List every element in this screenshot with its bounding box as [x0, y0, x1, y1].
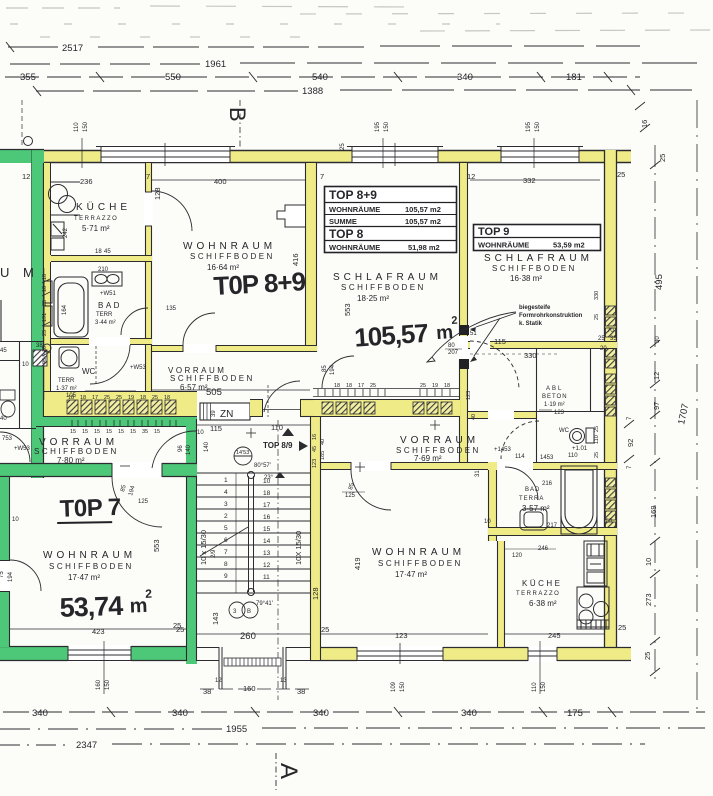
- svg-text:WOHNRAUM: WOHNRAUM: [183, 241, 276, 252]
- stairwell left wall green: [186, 419, 197, 664]
- TOP7 window label 160/150: [96, 641, 111, 694]
- room label BAD: [95, 301, 122, 326]
- svg-text:11: 11: [263, 574, 270, 581]
- svg-text:110: 110: [532, 682, 538, 692]
- yellow stub right of ZN: [250, 399, 263, 417]
- svg-text:SCHIFFBODEN: SCHIFFBODEN: [492, 264, 577, 273]
- svg-text:25: 25: [152, 395, 158, 401]
- annotation biegesteife: [427, 305, 583, 362]
- small triangle 23: [264, 472, 285, 481]
- top-left vertical line into plan: [21, 100, 23, 148]
- svg-text:181: 181: [566, 72, 582, 83]
- svg-text:140: 140: [186, 444, 192, 455]
- table TOP8+9: [325, 187, 457, 253]
- svg-text:20: 20: [600, 346, 607, 352]
- top dimension line 355 550 540 340 181: [5, 72, 640, 82]
- svg-text:TERRA: TERRA: [519, 496, 544, 502]
- svg-text:236: 236: [80, 177, 93, 186]
- kueche lower counter column: [577, 541, 609, 629]
- svg-text:207: 207: [448, 350, 459, 356]
- svg-text:15: 15: [263, 526, 271, 533]
- dim line under top wall: [152, 179, 305, 181]
- svg-text:195: 195: [526, 121, 532, 132]
- svg-text:TOP 9: TOP 9: [478, 226, 509, 238]
- svg-text:105,57: 105,57: [353, 318, 429, 353]
- wall wohnraum/speis vertical right apt: [488, 462, 497, 541]
- svg-text:SCHIFFBODEN: SCHIFFBODEN: [341, 283, 426, 292]
- svg-text:TERRAZZO: TERRAZZO: [74, 216, 118, 222]
- svg-text:7·80 m²: 7·80 m²: [57, 456, 85, 465]
- entry door TOP8/9 opening: [263, 381, 300, 417]
- wall hall top y411: [468, 410, 536, 420]
- svg-text:SCHIFFBODEN: SCHIFFBODEN: [34, 447, 119, 456]
- svg-text:15: 15: [82, 429, 88, 435]
- section marker A: [275, 753, 302, 790]
- svg-text:WOHNRÄUME: WOHNRÄUME: [329, 205, 380, 214]
- chain left wall inner: [42, 268, 50, 400]
- wall wohnraum/schlafraum8 vertical: [305, 163, 317, 352]
- svg-text:185: 185: [320, 451, 326, 460]
- top dimension line 2517: [6, 42, 640, 52]
- top outer wall yellow band: [35, 150, 631, 163]
- svg-text:550: 550: [165, 72, 181, 83]
- svg-text:18: 18: [80, 395, 86, 401]
- svg-text:BAD: BAD: [98, 301, 122, 310]
- svg-text:TERRAZZO: TERRAZZO: [516, 591, 560, 597]
- structural column 1: [459, 325, 469, 335]
- window in TOP7 bottom wall: [64, 645, 135, 662]
- chain stair right wall: [312, 434, 326, 468]
- room label WOHNRAUM top7: [43, 550, 136, 582]
- svg-text:7: 7: [320, 172, 324, 181]
- svg-text:10X 15/30: 10X 15/30: [294, 531, 303, 565]
- svg-text:12: 12: [652, 372, 661, 380]
- svg-text:160: 160: [243, 684, 256, 693]
- svg-text:216: 216: [542, 481, 553, 487]
- svg-text:KÜCHE: KÜCHE: [76, 201, 131, 213]
- svg-text:38: 38: [203, 687, 211, 696]
- right wall hatch cells lower: [606, 478, 616, 531]
- svg-text:16: 16: [640, 120, 649, 128]
- bottom wall TOP7 green: [0, 646, 197, 661]
- svg-text:13: 13: [263, 550, 271, 557]
- svg-text:53,59 m2: 53,59 m2: [553, 241, 585, 250]
- wall wohnraum/vorraum horizontal upper apt: [152, 344, 317, 353]
- svg-text:53,74: 53,74: [59, 591, 124, 623]
- svg-text:18: 18: [334, 383, 340, 389]
- kitchen upper-left counter/sink: [43, 222, 64, 352]
- svg-text:15: 15: [94, 429, 100, 435]
- svg-text:9: 9: [224, 573, 228, 580]
- svg-text:51,98 m2: 51,98 m2: [408, 243, 440, 252]
- bottom dim line 340 series: [3, 707, 705, 717]
- svg-text:1961: 1961: [205, 59, 226, 70]
- svg-text:BETON: BETON: [542, 394, 568, 400]
- chain green strip bottom numbers: [70, 429, 160, 435]
- svg-text:120: 120: [512, 553, 523, 559]
- svg-text:25: 25: [618, 623, 626, 632]
- svg-text:18·25 m²: 18·25 m²: [357, 294, 389, 303]
- stair treads: [197, 473, 310, 593]
- svg-text:1453: 1453: [540, 455, 554, 461]
- svg-text:WOHNRAUM: WOHNRAUM: [43, 550, 136, 561]
- stair stringer: [248, 472, 255, 596]
- svg-text:75: 75: [0, 571, 5, 578]
- right outer wall yellow band: [604, 150, 617, 661]
- left outer wall green band: [0, 150, 44, 479]
- window W3 in top wall: [497, 145, 583, 163]
- svg-text:k. Statik: k. Statik: [519, 321, 543, 327]
- svg-text:39: 39: [211, 410, 217, 417]
- svg-text:125: 125: [345, 493, 356, 499]
- svg-text:340: 340: [172, 708, 188, 719]
- chain vorraum 769 top ticks numbers: [334, 383, 450, 389]
- wc right wall stub: [145, 345, 152, 391]
- svg-text:191: 191: [42, 313, 48, 322]
- svg-text:25: 25: [104, 395, 110, 401]
- svg-text:ZN: ZN: [220, 409, 233, 420]
- structural column 2: [459, 359, 469, 369]
- svg-text:SCHLAFRAUM: SCHLAFRAUM: [484, 253, 593, 264]
- svg-text:5·71 m²: 5·71 m²: [82, 224, 110, 233]
- svg-text:5: 5: [224, 525, 228, 532]
- svg-text:25: 25: [598, 336, 605, 342]
- wall speis+bad/kueche horizontal: [488, 527, 617, 536]
- section marker B: [225, 100, 250, 148]
- left neighbour walls: [0, 341, 44, 429]
- bottom dim line 1955: [0, 728, 705, 729]
- svg-text:110: 110: [594, 435, 600, 444]
- svg-text:45: 45: [0, 348, 7, 354]
- svg-text:505: 505: [206, 387, 222, 398]
- wall kitchen/wohnraum vertical: [144, 163, 153, 345]
- svg-text:25: 25: [321, 625, 329, 634]
- room label VORRAUM 7.69: [396, 435, 481, 463]
- svg-text:123: 123: [312, 459, 318, 468]
- svg-text:2: 2: [451, 315, 458, 327]
- door arc into bad niche: [121, 308, 148, 335]
- svg-text:25: 25: [370, 383, 376, 389]
- svg-text:WOHNRÄUME: WOHNRÄUME: [329, 243, 380, 252]
- scan noise streaks top: [6, 6, 710, 37]
- kitchen bottom wall: [51, 255, 152, 262]
- svg-text:B: B: [247, 609, 251, 615]
- svg-text:25: 25: [658, 154, 667, 162]
- window W1 label 110/150: [74, 121, 89, 168]
- svg-text:SCHIFFBODEN: SCHIFFBODEN: [378, 559, 463, 568]
- door arc vorraum780: [152, 431, 196, 468]
- svg-text:51: 51: [470, 331, 477, 337]
- svg-text:12: 12: [22, 172, 30, 181]
- svg-text:340: 340: [461, 708, 477, 719]
- svg-text:3: 3: [224, 501, 228, 508]
- svg-text:4: 4: [224, 489, 228, 496]
- svg-text:150: 150: [105, 679, 111, 690]
- bad bottom wall: [51, 337, 152, 346]
- svg-text:45: 45: [104, 249, 111, 255]
- svg-text:143: 143: [211, 612, 220, 625]
- tick row above right band: [313, 389, 460, 397]
- svg-text:WC: WC: [82, 367, 96, 376]
- svg-text:25: 25: [42, 330, 48, 336]
- svg-text:115: 115: [494, 337, 506, 346]
- svg-text:13: 13: [280, 678, 287, 684]
- left neighbour wall fragment: [0, 300, 2, 341]
- svg-text:A: A: [275, 763, 302, 779]
- svg-text:12: 12: [215, 678, 222, 684]
- svg-text:194: 194: [8, 571, 14, 582]
- svg-text:SCHIFFBODEN: SCHIFFBODEN: [190, 252, 275, 261]
- svg-text:18: 18: [42, 274, 48, 280]
- svg-text:25: 25: [594, 452, 600, 458]
- svg-text:150: 150: [384, 121, 390, 132]
- wall piece right of entry door: [300, 399, 313, 417]
- room label SCHLAFRAUM top9: [484, 253, 593, 283]
- svg-text:31: 31: [475, 470, 481, 477]
- svg-text:423: 423: [92, 627, 105, 636]
- svg-text:164: 164: [62, 304, 68, 315]
- svg-text:18: 18: [140, 395, 146, 401]
- svg-text:18: 18: [346, 383, 352, 389]
- svg-text:3·44 m²: 3·44 m²: [95, 320, 116, 326]
- W5 label 110/150: [532, 641, 547, 694]
- svg-text:TOP 8+9: TOP 8+9: [329, 188, 377, 202]
- door arc schlafraum8: [322, 356, 354, 388]
- svg-text:6: 6: [224, 537, 228, 544]
- svg-text:110: 110: [74, 122, 80, 132]
- svg-text:150: 150: [400, 681, 406, 692]
- svg-text:1·37 m²: 1·37 m²: [56, 386, 77, 392]
- table TOP9: [474, 225, 601, 251]
- svg-text:TERR: TERR: [96, 312, 113, 318]
- svg-text:25: 25: [420, 383, 426, 389]
- svg-text:195: 195: [375, 121, 381, 132]
- left neighbour tiny labels: [2, 343, 43, 452]
- svg-text:biegesteife: biegesteife: [519, 305, 551, 311]
- window W3 label 195/150: [526, 121, 541, 168]
- room label KUECHE lower: [516, 579, 563, 608]
- svg-text:30: 30: [655, 336, 661, 343]
- svg-text:ABL: ABL: [546, 386, 563, 392]
- misc plus marks: [120, 420, 440, 472]
- ZN shaft box on landing: [200, 403, 250, 420]
- svg-text:419: 419: [353, 557, 362, 570]
- room label KUECHE upper: [74, 201, 131, 233]
- svg-text:18: 18: [263, 490, 271, 497]
- lower bad washbasin: [520, 509, 547, 530]
- svg-text:128: 128: [311, 587, 320, 600]
- svg-text:110: 110: [271, 423, 283, 432]
- svg-text:15: 15: [130, 429, 136, 435]
- svg-text:330: 330: [524, 351, 537, 360]
- svg-text:16: 16: [263, 514, 271, 521]
- svg-text:8: 8: [224, 561, 228, 568]
- room label WOHNRAUM upper: [183, 241, 276, 272]
- svg-text:25: 25: [42, 300, 48, 306]
- svg-text:15: 15: [154, 429, 160, 435]
- svg-text:B: B: [225, 107, 250, 122]
- svg-text:10: 10: [42, 346, 48, 352]
- svg-text:273: 273: [644, 593, 653, 606]
- svg-text:18: 18: [164, 395, 170, 401]
- svg-text:753: 753: [2, 436, 13, 442]
- svg-text:SCHIFFBODEN: SCHIFFBODEN: [49, 562, 134, 571]
- svg-text:260: 260: [240, 631, 256, 642]
- svg-text:169: 169: [649, 505, 658, 518]
- tread numbers left: [224, 477, 228, 580]
- door arc wc lower (dashed): [501, 421, 539, 459]
- svg-text:105,57 m2: 105,57 m2: [405, 217, 441, 226]
- kitchen upper-left stove circles: [49, 182, 81, 215]
- handwritten 53,74 m2: [59, 587, 153, 623]
- svg-text:6·57 m²: 6·57 m²: [180, 383, 208, 392]
- svg-text:25: 25: [116, 395, 122, 401]
- right wall hatch cells upper: [606, 306, 616, 416]
- svg-text:35: 35: [142, 429, 148, 435]
- schlafraum9 bottom wall: [468, 340, 617, 350]
- svg-text:25: 25: [340, 143, 346, 150]
- corridor wall band left (yellow with hatch cells): [44, 391, 197, 417]
- room label SPEIS: [519, 487, 550, 513]
- svg-text:92: 92: [626, 439, 635, 447]
- svg-text:123: 123: [554, 410, 565, 416]
- svg-text:+1453: +1453: [494, 447, 512, 453]
- TOP 8/9 entry label: [263, 428, 308, 451]
- svg-text:2: 2: [145, 587, 152, 601]
- svg-text:VORRAUM: VORRAUM: [400, 435, 479, 446]
- svg-text:14: 14: [263, 538, 271, 545]
- door arc schlafraum9 (dashed): [470, 341, 519, 390]
- svg-text:242: 242: [63, 227, 69, 238]
- svg-text:SCHIFFBODEN: SCHIFFBODEN: [170, 374, 255, 383]
- svg-text:2517: 2517: [62, 43, 83, 54]
- bottom wall right apartment yellow: [310, 647, 631, 661]
- svg-text:7·69 m²: 7·69 m²: [414, 454, 442, 463]
- svg-text:128: 128: [153, 187, 162, 200]
- TOP7 left wall green: [0, 477, 11, 647]
- svg-text:123: 123: [466, 391, 472, 400]
- svg-text:15: 15: [106, 429, 112, 435]
- svg-text:150: 150: [83, 121, 89, 132]
- svg-text:123: 123: [395, 631, 408, 640]
- svg-text:10: 10: [22, 362, 29, 368]
- svg-text:7: 7: [146, 172, 150, 181]
- svg-text:38: 38: [297, 687, 305, 696]
- svg-text:2: 2: [224, 513, 228, 520]
- svg-text:1·19 m²: 1·19 m²: [544, 402, 565, 408]
- left neighbour shaft box: [33, 350, 47, 366]
- window W1 in top wall: [96, 143, 235, 166]
- window in bottom wall right apt W5: [528, 646, 557, 662]
- right chain line: [654, 145, 656, 680]
- svg-text:340: 340: [457, 72, 473, 83]
- left neighbour toilet: [0, 390, 15, 417]
- stair diagonal: [200, 527, 248, 556]
- chain schlafraum9 right inner: [594, 291, 600, 320]
- svg-text:50: 50: [606, 518, 612, 524]
- svg-text:3·57 m²: 3·57 m²: [522, 504, 550, 513]
- svg-text:BAD: BAD: [525, 487, 540, 493]
- svg-text:1955: 1955: [226, 724, 247, 735]
- door arc vorraum->wohnraum right apt: [351, 470, 391, 510]
- svg-text:17·47 m²: 17·47 m²: [395, 570, 427, 579]
- svg-text:400: 400: [214, 177, 227, 186]
- svg-text:17: 17: [92, 395, 98, 401]
- svg-text:+W53: +W53: [130, 365, 147, 371]
- svg-text:150: 150: [535, 121, 541, 132]
- svg-text:WOHNRÄUME: WOHNRÄUME: [478, 241, 529, 250]
- door arc kitchen->wohnraum: [152, 191, 192, 231]
- svg-text:15: 15: [70, 429, 76, 435]
- corridor wall band right (yellow with hatch cells): [313, 399, 460, 417]
- lower bad bathtub: [561, 466, 597, 534]
- flue niche zigzag in wohnraum top right: [277, 205, 305, 227]
- svg-text:7: 7: [224, 549, 228, 556]
- svg-text:12: 12: [263, 562, 271, 569]
- bad door arc: [505, 467, 538, 500]
- left inner yellow strip: [44, 163, 51, 391]
- handwritten TOP 7: [56, 494, 121, 524]
- svg-text:135: 135: [166, 306, 177, 312]
- window W2 label 195/150: [340, 121, 390, 168]
- top dimension line 1388: [33, 85, 692, 96]
- svg-text:35: 35: [610, 336, 617, 342]
- top dimension line 1961: [10, 63, 700, 64]
- wall vorraum/wohnraum right apt horizontal: [313, 461, 617, 471]
- svg-text:T0P 7: T0P 7: [59, 494, 121, 523]
- door arc TOP7 left: [10, 560, 41, 591]
- svg-text:416: 416: [291, 253, 300, 266]
- window in bottom wall right apt W4: [353, 643, 447, 664]
- bad upper bathtub: [54, 277, 88, 337]
- svg-text:18: 18: [95, 249, 102, 255]
- svg-text:25: 25: [594, 314, 600, 320]
- svg-text:45: 45: [312, 446, 318, 452]
- svg-text:17·47 m²: 17·47 m²: [68, 573, 100, 582]
- svg-text:18: 18: [444, 383, 450, 389]
- svg-text:KÜCHE: KÜCHE: [522, 579, 563, 588]
- wc upper toilet: [59, 347, 79, 368]
- svg-text:19: 19: [128, 395, 134, 401]
- room label ABL: [539, 386, 568, 416]
- svg-text:19: 19: [432, 383, 438, 389]
- lower wc toilet: [570, 428, 595, 444]
- door arc wc upper: [90, 345, 130, 384]
- svg-text:10: 10: [197, 430, 204, 436]
- corridor green strip below left band: [36, 417, 197, 427]
- svg-text:330: 330: [594, 291, 600, 300]
- svg-text:125: 125: [138, 499, 149, 505]
- svg-text:553: 553: [152, 539, 161, 552]
- svg-text:WC: WC: [559, 428, 570, 434]
- svg-text:U M: U M: [0, 265, 39, 280]
- svg-text:340: 340: [32, 708, 48, 719]
- chain left band top numbers: [68, 395, 170, 401]
- svg-text:175: 175: [567, 708, 583, 719]
- svg-text:105,57 m2: 105,57 m2: [405, 205, 441, 214]
- svg-text:16: 16: [312, 434, 318, 440]
- svg-text:17: 17: [358, 383, 364, 389]
- porch dims: [200, 678, 310, 696]
- window W2 in top wall: [347, 143, 443, 166]
- left neighbour door arc: [0, 432, 30, 462]
- entrance porch walls: [197, 647, 310, 689]
- svg-text:10: 10: [263, 478, 271, 485]
- svg-text:17: 17: [263, 502, 271, 509]
- handwritten 105,57 m2: [353, 315, 459, 353]
- stairwell right wall yellow: [310, 417, 321, 660]
- svg-text:WOHNRAUM: WOHNRAUM: [372, 547, 465, 558]
